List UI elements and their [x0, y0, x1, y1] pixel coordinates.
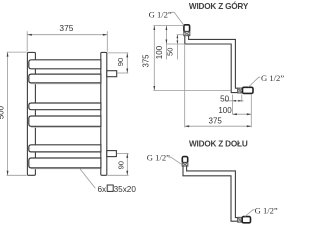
svg-text:500: 500 — [0, 105, 6, 119]
dimension 100 horizontal bottom of top view — [218, 95, 251, 128]
leader to fitting U1 — [171, 12, 184, 25]
svg-text:35x20: 35x20 — [114, 185, 137, 194]
dimension 50 vertical top view — [165, 35, 183, 60]
svg-text:WIDOK Z GÓRY: WIDOK Z GÓRY — [189, 0, 249, 11]
dimension 50 horizontal bottom of top view — [220, 94, 243, 114]
svg-text:6x: 6x — [98, 185, 107, 194]
tube 6 — [29, 158, 101, 168]
connection stub bottom right — [107, 151, 117, 157]
svg-text:50: 50 — [220, 94, 229, 103]
svg-text:G 1/2”: G 1/2” — [149, 10, 172, 20]
fitting nut bottom view G1/2 (vertical) — [182, 157, 187, 163]
dimension 375 vertical top view — [142, 26, 231, 91]
fitting nut top view G1/2 (vertical) — [184, 25, 190, 32]
leader to fitting bottom right — [245, 210, 255, 217]
tube shadow lines — [31, 83, 100, 85]
leader to fitting right — [249, 77, 261, 87]
dimension 375 horizontal bottom of top view — [185, 45, 252, 127]
svg-text:375: 375 — [59, 23, 73, 33]
svg-text:50: 50 — [165, 48, 174, 56]
svg-text:90: 90 — [116, 161, 125, 169]
dimension 375 top — [27, 23, 107, 52]
dimension 100 vertical top view — [155, 26, 185, 60]
dimension 90 bottom right — [107, 153, 128, 175]
fitting nut bottom view G1/2 right (horizontal) — [242, 217, 250, 223]
svg-text:90: 90 — [116, 58, 125, 66]
tube 4 — [29, 116, 101, 126]
dimension 90 top right — [108, 53, 129, 73]
tube 5 — [29, 145, 101, 152]
fitting hatch block bottom view left — [182, 163, 188, 166]
svg-text:375: 375 — [209, 117, 223, 126]
svg-text:G 1/2”: G 1/2” — [255, 206, 278, 216]
pipe bottom view (z-shaped) — [183, 166, 238, 221]
fitting hatch block top view right — [238, 88, 243, 93]
svg-text:WIDOK Z DOŁU: WIDOK Z DOŁU — [189, 140, 248, 149]
fitting hatch block top view — [184, 32, 190, 36]
dimension 500 left — [0, 52, 27, 175]
tube 2 — [29, 74, 101, 83]
leader to fitting bottom view left — [169, 157, 182, 164]
fitting nut top view G1/2 right (horizontal) — [243, 87, 254, 93]
svg-text:100: 100 — [218, 106, 232, 115]
svg-text:375: 375 — [142, 54, 151, 68]
pipe top view (z-shaped) — [185, 36, 238, 93]
connection stub top right — [107, 71, 117, 77]
leader 6x 35x20 — [80, 168, 137, 194]
collector left rail — [27, 52, 35, 175]
svg-text:G 1/2”: G 1/2” — [261, 73, 284, 83]
fitting hatch block bottom view right — [238, 217, 243, 222]
svg-text:G 1/2”: G 1/2” — [147, 153, 170, 163]
tube 3 — [29, 103, 101, 110]
tube 1 — [29, 60, 101, 69]
collector right rail — [101, 52, 107, 175]
svg-text:100: 100 — [155, 45, 164, 59]
